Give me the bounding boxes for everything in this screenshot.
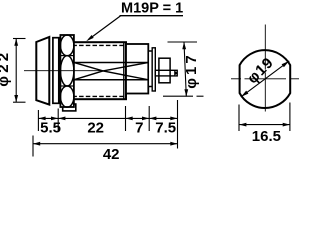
svg-text:M19P = 1: M19P = 1 [121, 1, 183, 17]
svg-text:7.5: 7.5 [155, 119, 176, 136]
svg-text:16.5: 16.5 [252, 128, 281, 145]
svg-text:φ22: φ22 [0, 50, 12, 87]
svg-text:5.5: 5.5 [40, 119, 61, 136]
svg-text:22: 22 [87, 119, 104, 136]
svg-text:7: 7 [135, 119, 143, 136]
svg-text:42: 42 [103, 146, 120, 159]
svg-text:φ17: φ17 [183, 52, 200, 88]
